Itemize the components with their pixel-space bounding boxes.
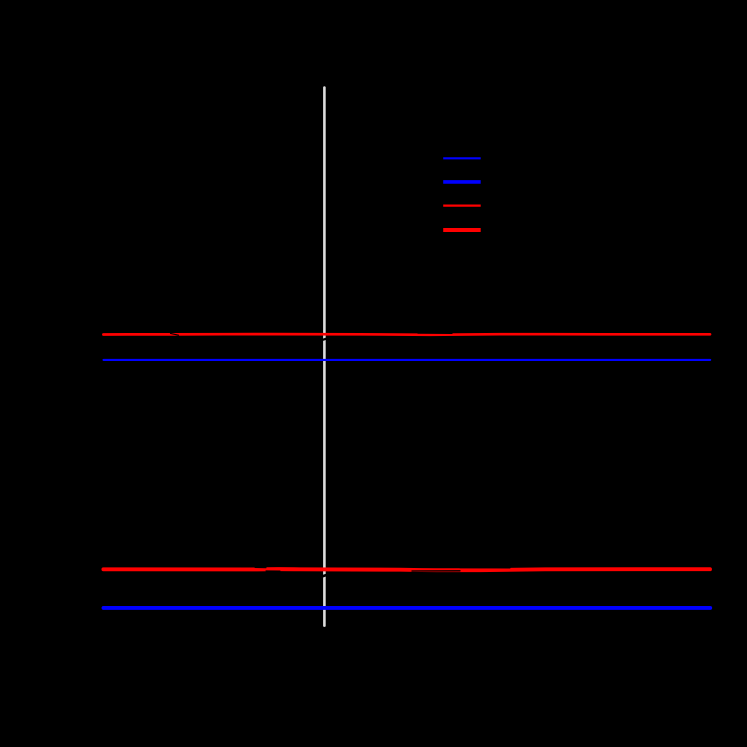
- black curve gap crossing gray line below bottom red line: [322, 575, 328, 577]
- black curve bite on bottom edge of bottom red x 266-280: [266, 570, 280, 572]
- bottom red thick wavy line: [103, 569, 710, 570]
- top red wavy line (thin red estimate curve): [103, 333, 710, 336]
- legend line sample 2: thick blue: [443, 180, 481, 184]
- black curve overlap shaving top edge of red x 418-452: [418, 332, 452, 334]
- black curve shaving top edge of bottom red x 460-510: [460, 567, 510, 569]
- legend line sample 3: thin red: [443, 204, 481, 206]
- black curve biting bottom edge of bottom red x 412-460: [412, 570, 460, 572]
- black curve gap crossing gray line below top red line: [322, 338, 328, 340]
- legend line sample 4: thick red: [443, 228, 481, 232]
- black curve crossing pinch on top red line at x~172: [171, 333, 179, 335]
- bottom blue thick straight line: [104, 606, 711, 610]
- vertical gray reference line (abline v): [323, 88, 326, 626]
- legend line sample 1: thin blue: [443, 157, 481, 159]
- top blue straight line (thin blue true value): [104, 359, 711, 361]
- black curve bite on top edge of bottom red x 255-266: [255, 566, 266, 568]
